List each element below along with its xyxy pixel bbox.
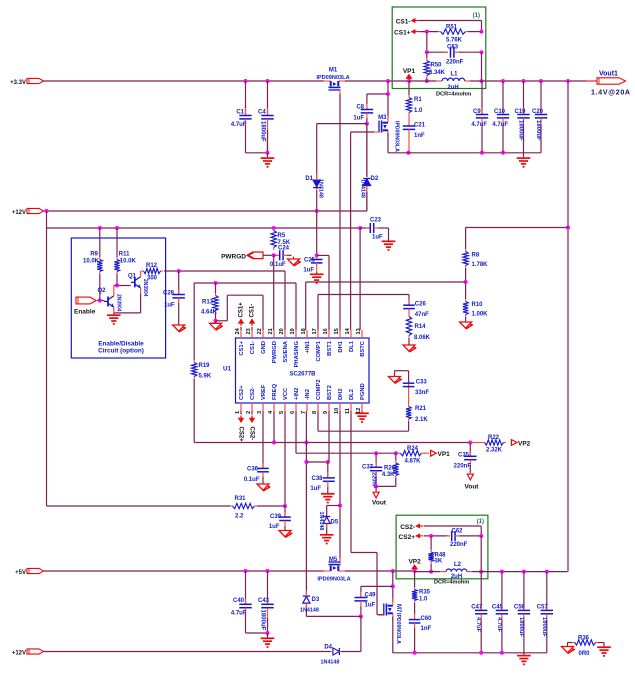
svg-text:VREF: VREF <box>261 384 267 400</box>
svg-text:+12V: +12V <box>12 210 26 216</box>
wire M3 gate to DL1 <box>351 131 374 133</box>
svg-text:PWRGD: PWRGD <box>221 254 246 261</box>
svg-text:1nF: 1nF <box>414 133 425 139</box>
svg-text:C35: C35 <box>458 453 470 459</box>
port Vout arrow ch2 <box>467 474 473 480</box>
svg-text:1uF: 1uF <box>164 303 175 309</box>
pin 24 CS1+ <box>240 330 242 338</box>
ground earth Q2 <box>113 313 115 315</box>
svg-text:-IN2: -IN2 <box>305 389 311 400</box>
wire C40-C43 ground <box>246 632 268 634</box>
ground earth PGND bus <box>523 653 525 655</box>
svg-text:M1: M1 <box>329 68 338 74</box>
svg-text:4.7uF: 4.7uF <box>231 122 247 128</box>
svg-text:2.1K: 2.1K <box>415 417 428 423</box>
wire BST2 / C38 line <box>306 461 327 463</box>
svg-text:C28: C28 <box>163 291 175 297</box>
wire R12 to SS/ENA <box>164 270 285 272</box>
svg-text:D5: D5 <box>331 520 339 526</box>
capacitor C8 <box>361 109 373 111</box>
resistor R22 <box>470 442 482 444</box>
enable circuit box <box>71 238 165 358</box>
wire PHASING line <box>194 282 296 284</box>
wire +IN1 line <box>465 268 467 299</box>
svg-text:(1): (1) <box>477 519 484 525</box>
svg-text:8.06K: 8.06K <box>414 335 431 341</box>
wire DL2 column <box>350 411 352 553</box>
pin 2 CS2- <box>251 403 253 411</box>
pin 8 COMP2 <box>317 403 319 411</box>
resistor R13 <box>215 283 217 293</box>
pin 16 BST1 <box>328 330 330 338</box>
ground arrow C36 <box>257 484 269 490</box>
wire Q2 collector to Q1 base <box>113 286 115 297</box>
capacitor C57 <box>546 572 548 610</box>
pin 6 +IN2 <box>295 403 297 411</box>
transistor Q2 <box>107 297 109 307</box>
svg-text:C47: C47 <box>471 605 483 611</box>
svg-text:R51: R51 <box>446 25 458 31</box>
svg-text:220nF: 220nF <box>454 464 472 470</box>
port CS2- pin arrow <box>251 411 253 415</box>
svg-text:IPD09N03LA: IPD09N03LA <box>317 577 350 583</box>
junction dots output rail <box>501 79 505 83</box>
svg-text:IPD09N03LA: IPD09N03LA <box>394 121 400 152</box>
pin 21 PWRGD <box>273 330 275 338</box>
node phase1 <box>386 79 390 83</box>
svg-text:DCR=4mohm: DCR=4mohm <box>434 580 469 586</box>
wire CS2 right column to rail <box>480 536 482 572</box>
svg-text:C10: C10 <box>494 109 506 115</box>
wire +3.3V rail <box>44 80 324 82</box>
svg-text:1800uF: 1800uF <box>518 617 524 637</box>
capacitor C24 <box>276 254 280 256</box>
svg-text:D2: D2 <box>371 176 379 182</box>
svg-text:13: 13 <box>356 328 362 334</box>
wire CS1- to right column <box>419 20 482 22</box>
capacitor C25 <box>316 255 318 259</box>
wire Vout feedback to R8 <box>566 226 570 230</box>
resistor R51 <box>438 31 441 33</box>
port CS2+ pin arrow <box>240 411 242 415</box>
svg-text:C25: C25 <box>304 258 316 264</box>
svg-text:47nF: 47nF <box>415 312 429 318</box>
wire enable to Q2 base <box>97 300 105 302</box>
wire C8 top branch <box>367 93 388 95</box>
wire D4 riser <box>360 616 362 651</box>
wire COMP1 line <box>317 295 319 331</box>
svg-text:5.76K: 5.76K <box>446 38 463 44</box>
svg-text:C20: C20 <box>532 109 544 115</box>
wire M3 source down <box>387 133 389 153</box>
pin 1 CS2+ <box>240 403 242 411</box>
svg-text:220nF: 220nF <box>446 60 464 66</box>
svg-text:R36: R36 <box>578 636 590 642</box>
wire R31 feed line <box>47 505 231 507</box>
svg-text:1uF: 1uF <box>310 486 321 492</box>
ground earth output bank ch1 <box>523 153 525 158</box>
svg-text:+5V: +5V <box>15 570 26 576</box>
wire PGND bus <box>393 652 547 654</box>
capacitor C26 <box>408 300 410 306</box>
svg-text:M3: M3 <box>378 115 387 121</box>
ground arrow R13 <box>215 321 217 324</box>
ground arrow R14 <box>408 338 410 345</box>
port Enable <box>76 297 96 304</box>
svg-text:Vout1: Vout1 <box>599 71 618 78</box>
port CS1- pin arrow <box>251 323 253 326</box>
capacitor C40 <box>244 569 248 573</box>
svg-text:DH2: DH2 <box>338 388 344 400</box>
ground earth PGND pin12 <box>361 411 363 413</box>
wire M1 gate to DH1 <box>339 94 341 330</box>
op-amp U1 SC2677B body <box>236 338 370 403</box>
resistor R1 <box>408 81 410 95</box>
svg-text:+IN2: +IN2 <box>294 388 300 400</box>
svg-text:CS2-: CS2- <box>250 387 256 400</box>
transistor M3 <box>387 116 389 123</box>
node C8 bottom <box>365 122 369 126</box>
node phase2 <box>391 569 395 573</box>
svg-text:C9: C9 <box>473 109 481 115</box>
svg-text:CS2-: CS2- <box>400 524 415 531</box>
svg-text:C63: C63 <box>447 45 459 51</box>
wire C1-C4 ground <box>246 152 268 154</box>
wire +5V rail <box>44 570 324 572</box>
svg-text:C26: C26 <box>415 302 427 308</box>
svg-text:VP2: VP2 <box>518 441 531 448</box>
svg-text:2.32K: 2.32K <box>486 448 503 454</box>
svg-text:C36: C36 <box>247 467 259 473</box>
pin 14 DL1 <box>350 330 352 338</box>
svg-text:20: 20 <box>279 328 285 334</box>
pin 4 FREQ <box>273 403 275 411</box>
pin 12 PGND <box>361 403 363 411</box>
svg-text:2uH: 2uH <box>447 85 458 91</box>
svg-text:4.87K: 4.87K <box>405 459 422 465</box>
svg-text:1uF: 1uF <box>353 116 364 122</box>
port VP1 arrow right <box>424 452 429 454</box>
svg-text:C19: C19 <box>515 109 527 115</box>
svg-text:33nF: 33nF <box>415 390 429 396</box>
svg-text:1uF: 1uF <box>269 524 280 530</box>
svg-text:R35: R35 <box>419 590 431 596</box>
resistor R31 <box>230 505 233 507</box>
svg-text:8: 8 <box>312 411 318 414</box>
svg-text:Circuit (option): Circuit (option) <box>98 348 144 355</box>
capacitor C56 <box>523 572 525 610</box>
pin 9 BST2 <box>328 403 330 411</box>
svg-text:SS/ENA: SS/ENA <box>283 340 289 362</box>
wire Vout tap <box>395 478 397 486</box>
svg-text:1800uF: 1800uF <box>535 120 541 141</box>
svg-text:CS2+: CS2+ <box>239 385 245 400</box>
resistor R48 <box>430 536 432 550</box>
svg-text:1800uF: 1800uF <box>260 121 266 142</box>
ground earth C38 <box>327 492 329 493</box>
svg-text:Q1: Q1 <box>128 274 137 280</box>
node C49 bottom <box>359 614 363 618</box>
wire CS2+ line <box>424 535 448 537</box>
svg-text:2N3904: 2N3904 <box>115 294 121 312</box>
svg-text:15: 15 <box>334 328 340 334</box>
svg-text:0.1uF: 0.1uF <box>244 477 260 483</box>
svg-text:CS2-: CS2- <box>248 427 254 441</box>
svg-text:PGND: PGND <box>360 383 366 400</box>
junction BSTC net <box>358 226 362 230</box>
resistor R21 <box>408 404 410 407</box>
svg-text:BST2: BST2 <box>327 385 333 400</box>
pin 10 DH2 <box>339 403 341 411</box>
resistor R5 <box>272 226 276 230</box>
wire +12V rail <box>44 210 367 212</box>
svg-text:10.0K: 10.0K <box>120 259 137 265</box>
svg-text:22: 22 <box>257 328 263 334</box>
wire Q1 collector to R12 <box>140 271 142 277</box>
pin 5 VCC <box>284 403 286 411</box>
diode D4 <box>333 648 340 655</box>
power node VP1 <box>406 74 412 79</box>
svg-text:Vout: Vout <box>465 484 480 491</box>
svg-text:CS1-: CS1- <box>250 304 256 318</box>
capacitor C35 <box>469 443 471 457</box>
svg-text:R8: R8 <box>472 253 480 259</box>
svg-text:C62: C62 <box>452 529 464 535</box>
wire snubber ground bus <box>407 151 411 155</box>
capacitor C28 <box>178 271 180 295</box>
svg-text:5: 5 <box>279 411 285 414</box>
capacitor C21 <box>408 115 410 126</box>
wire M7 source to pgnd <box>392 617 394 654</box>
port Vout1 <box>586 80 597 82</box>
ground arrow R10 <box>465 317 467 322</box>
wire Q1 emitter down <box>140 288 142 294</box>
svg-text:L1: L1 <box>450 72 458 78</box>
wire M1 source to phase node <box>345 80 409 82</box>
wire +IN2/VP1 line <box>295 411 297 453</box>
resistor R26 <box>395 453 397 460</box>
capacitor C33 <box>408 383 410 404</box>
resistor R14 <box>408 314 410 317</box>
ground earth R36 right <box>598 642 604 644</box>
capacitor C23 <box>360 227 370 229</box>
wire COMP2 line <box>317 411 319 431</box>
svg-text:4.7uF: 4.7uF <box>496 617 502 633</box>
svg-text:C24: C24 <box>278 246 290 252</box>
svg-text:C43: C43 <box>258 598 270 604</box>
transistor M5 <box>324 570 331 572</box>
svg-text:CS2+: CS2+ <box>237 427 243 443</box>
ground arrow C24 <box>293 257 295 260</box>
resistor R9 <box>98 226 102 230</box>
wire R11 bottom <box>116 274 118 286</box>
svg-text:0.1uF: 0.1uF <box>270 262 286 268</box>
ground arrow C39 <box>279 531 291 537</box>
wire VP2 line right <box>468 441 472 445</box>
svg-text:PHASING: PHASING <box>294 341 300 368</box>
svg-text:C56: C56 <box>514 605 526 611</box>
svg-text:R13: R13 <box>202 300 214 306</box>
ground earth D5 <box>326 533 328 534</box>
transistor M1 <box>324 80 331 82</box>
sense network box 1 <box>392 7 486 89</box>
wire PWRGD line <box>263 254 277 256</box>
svg-text:C23: C23 <box>370 218 382 224</box>
svg-text:GND: GND <box>261 341 267 354</box>
resistor R50 <box>426 58 428 61</box>
svg-text:1800uF: 1800uF <box>541 617 547 637</box>
capacitor C39 <box>284 506 286 517</box>
wire D1 column to C25/BST1 <box>316 211 318 255</box>
svg-text:11: 11 <box>345 408 351 414</box>
wire -IN2 column <box>305 411 307 596</box>
svg-text:220nF: 220nF <box>450 542 468 548</box>
wire CS2- to right column <box>424 525 481 527</box>
wire CS1+ line <box>419 31 438 33</box>
svg-text:+12V: +12V <box>12 651 26 657</box>
capacitor C4 <box>266 79 270 83</box>
diode D2 <box>366 124 368 211</box>
svg-text:R10: R10 <box>472 302 484 308</box>
svg-text:2: 2 <box>246 411 252 414</box>
wire PWRGD pin drop <box>273 255 275 330</box>
capacitor C20 <box>540 81 542 115</box>
junction dots phase2 rail <box>500 570 504 574</box>
svg-text:16: 16 <box>323 328 329 334</box>
svg-text:Q2: Q2 <box>97 288 106 294</box>
svg-text:D3: D3 <box>312 597 320 603</box>
svg-text:4.7uF: 4.7uF <box>231 611 247 617</box>
junction dots ground bus <box>480 151 484 155</box>
svg-text:3: 3 <box>257 411 263 414</box>
wire M7 gate <box>377 614 384 616</box>
svg-text:4.7uF: 4.7uF <box>475 617 481 633</box>
ground arrow C28 <box>173 325 185 331</box>
svg-text:U1: U1 <box>223 366 231 373</box>
svg-text:BST1: BST1 <box>327 340 333 356</box>
capacitor C45 <box>501 572 503 610</box>
transistor Q1 <box>134 277 136 287</box>
svg-text:R26: R26 <box>384 466 396 472</box>
svg-text:CS2+: CS2+ <box>399 534 416 541</box>
pin 3 VREF <box>262 403 264 411</box>
svg-text:C60: C60 <box>421 616 433 622</box>
wire C33 ground hook <box>408 371 410 384</box>
capacitor C10 <box>502 81 504 115</box>
svg-text:M7: M7 <box>395 604 401 613</box>
svg-text:+3.3V: +3.3V <box>10 80 26 86</box>
resistor R8 <box>465 228 467 250</box>
svg-text:R50: R50 <box>431 63 443 69</box>
svg-text:COMP1: COMP1 <box>316 340 322 361</box>
pin 19 PHASING <box>295 330 297 338</box>
svg-text:R5: R5 <box>278 233 286 239</box>
svg-text:300: 300 <box>147 276 158 282</box>
resistor R36 <box>572 642 575 644</box>
wire output feedback vertical <box>567 81 569 572</box>
svg-text:Enable: Enable <box>74 309 96 316</box>
pin 7 -IN2 <box>306 403 308 411</box>
svg-text:CS1+: CS1+ <box>239 302 245 318</box>
ground arrow C33 <box>389 377 401 383</box>
svg-text:DL2: DL2 <box>349 389 355 400</box>
svg-text:C45: C45 <box>492 605 504 611</box>
svg-text:R24: R24 <box>407 446 419 452</box>
svg-text:2N3904: 2N3904 <box>142 279 148 297</box>
capacitor C9 <box>481 81 483 115</box>
svg-text:FREQ: FREQ <box>272 383 278 400</box>
pin 17 COMP1 <box>317 330 319 338</box>
svg-text:1nF: 1nF <box>421 626 432 632</box>
svg-text:VP1: VP1 <box>438 451 451 458</box>
capacitor C47 <box>480 572 482 610</box>
port Vout arrow ch1 <box>373 492 379 498</box>
capacitor C62 <box>446 535 450 537</box>
svg-text:9: 9 <box>323 411 329 414</box>
wire R50 column top <box>426 32 428 58</box>
ground earth below C4 <box>267 153 269 158</box>
svg-text:D1: D1 <box>305 176 313 182</box>
svg-text:1N4148: 1N4148 <box>321 660 340 666</box>
svg-text:6: 6 <box>290 411 296 414</box>
svg-text:10.0K: 10.0K <box>83 259 100 265</box>
capacitor C43 <box>266 569 270 573</box>
svg-text:1uF: 1uF <box>303 268 314 274</box>
svg-text:M5: M5 <box>329 557 338 563</box>
svg-text:R22: R22 <box>488 435 500 441</box>
capacitor C63 <box>425 50 429 54</box>
svg-text:5.9K: 5.9K <box>199 374 212 380</box>
svg-text:D4: D4 <box>324 645 332 651</box>
wire DH2 column <box>339 411 341 563</box>
svg-text:DCR=4mohm: DCR=4mohm <box>436 92 471 98</box>
wire M5 source to phase2 <box>345 570 415 572</box>
svg-text:R1: R1 <box>414 97 422 103</box>
wire BST1 branch <box>317 254 329 256</box>
pin 23 CS1- <box>251 330 253 338</box>
svg-text:1.0: 1.0 <box>414 108 423 114</box>
capacitor C38 <box>327 462 329 478</box>
svg-text:1800uF: 1800uF <box>518 120 524 141</box>
port CS1+ pin arrow <box>240 323 242 326</box>
ground earth C23 <box>388 239 390 241</box>
resistor R11 <box>115 226 119 230</box>
svg-text:CS1+: CS1+ <box>394 30 411 37</box>
svg-text:C38: C38 <box>311 476 323 482</box>
svg-text:1uF: 1uF <box>365 603 376 609</box>
svg-text:0R0: 0R0 <box>579 651 591 657</box>
svg-text:R9: R9 <box>90 252 98 258</box>
resistor R12 <box>141 270 144 272</box>
wire Q2 emitter <box>113 307 115 313</box>
resistor R24 <box>398 452 401 454</box>
pin 13 BSTC <box>361 330 363 338</box>
svg-text:1800uF: 1800uF <box>260 610 266 631</box>
svg-text:C1: C1 <box>236 110 244 116</box>
svg-text:VP1: VP1 <box>403 68 416 75</box>
svg-text:R19: R19 <box>199 363 211 369</box>
capacitor C36 <box>262 411 264 468</box>
svg-text:3K: 3K <box>435 559 443 565</box>
wire BST2 column <box>328 411 330 462</box>
svg-text:6.34K: 6.34K <box>429 70 446 76</box>
svg-text:4.7uF: 4.7uF <box>492 122 508 128</box>
svg-text:4.7uF: 4.7uF <box>471 122 487 128</box>
wire R9 bottom <box>99 274 101 301</box>
ground earth C25 <box>316 272 318 274</box>
wire phase drop to M3 <box>387 81 389 120</box>
svg-text:C40: C40 <box>233 598 245 604</box>
